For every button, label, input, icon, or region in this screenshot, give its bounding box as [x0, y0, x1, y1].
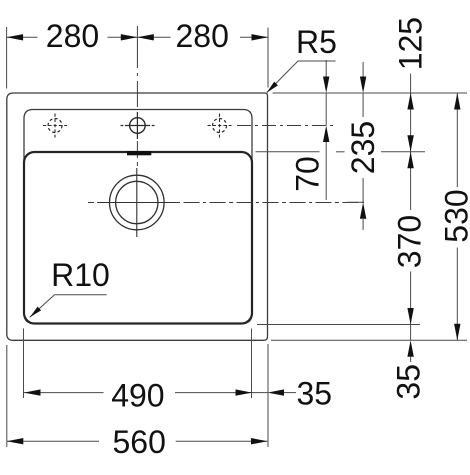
- svg-text:35: 35: [297, 376, 333, 412]
- svg-text:280: 280: [46, 18, 99, 54]
- svg-text:R5: R5: [296, 24, 337, 60]
- svg-text:235: 235: [345, 121, 381, 174]
- svg-text:125: 125: [393, 17, 429, 70]
- svg-text:70: 70: [290, 156, 326, 192]
- svg-text:280: 280: [176, 18, 229, 54]
- svg-text:560: 560: [113, 424, 166, 460]
- svg-text:R10: R10: [51, 257, 110, 293]
- svg-text:35: 35: [390, 364, 426, 400]
- svg-text:530: 530: [439, 189, 470, 242]
- svg-text:370: 370: [392, 215, 428, 268]
- svg-text:490: 490: [111, 377, 164, 413]
